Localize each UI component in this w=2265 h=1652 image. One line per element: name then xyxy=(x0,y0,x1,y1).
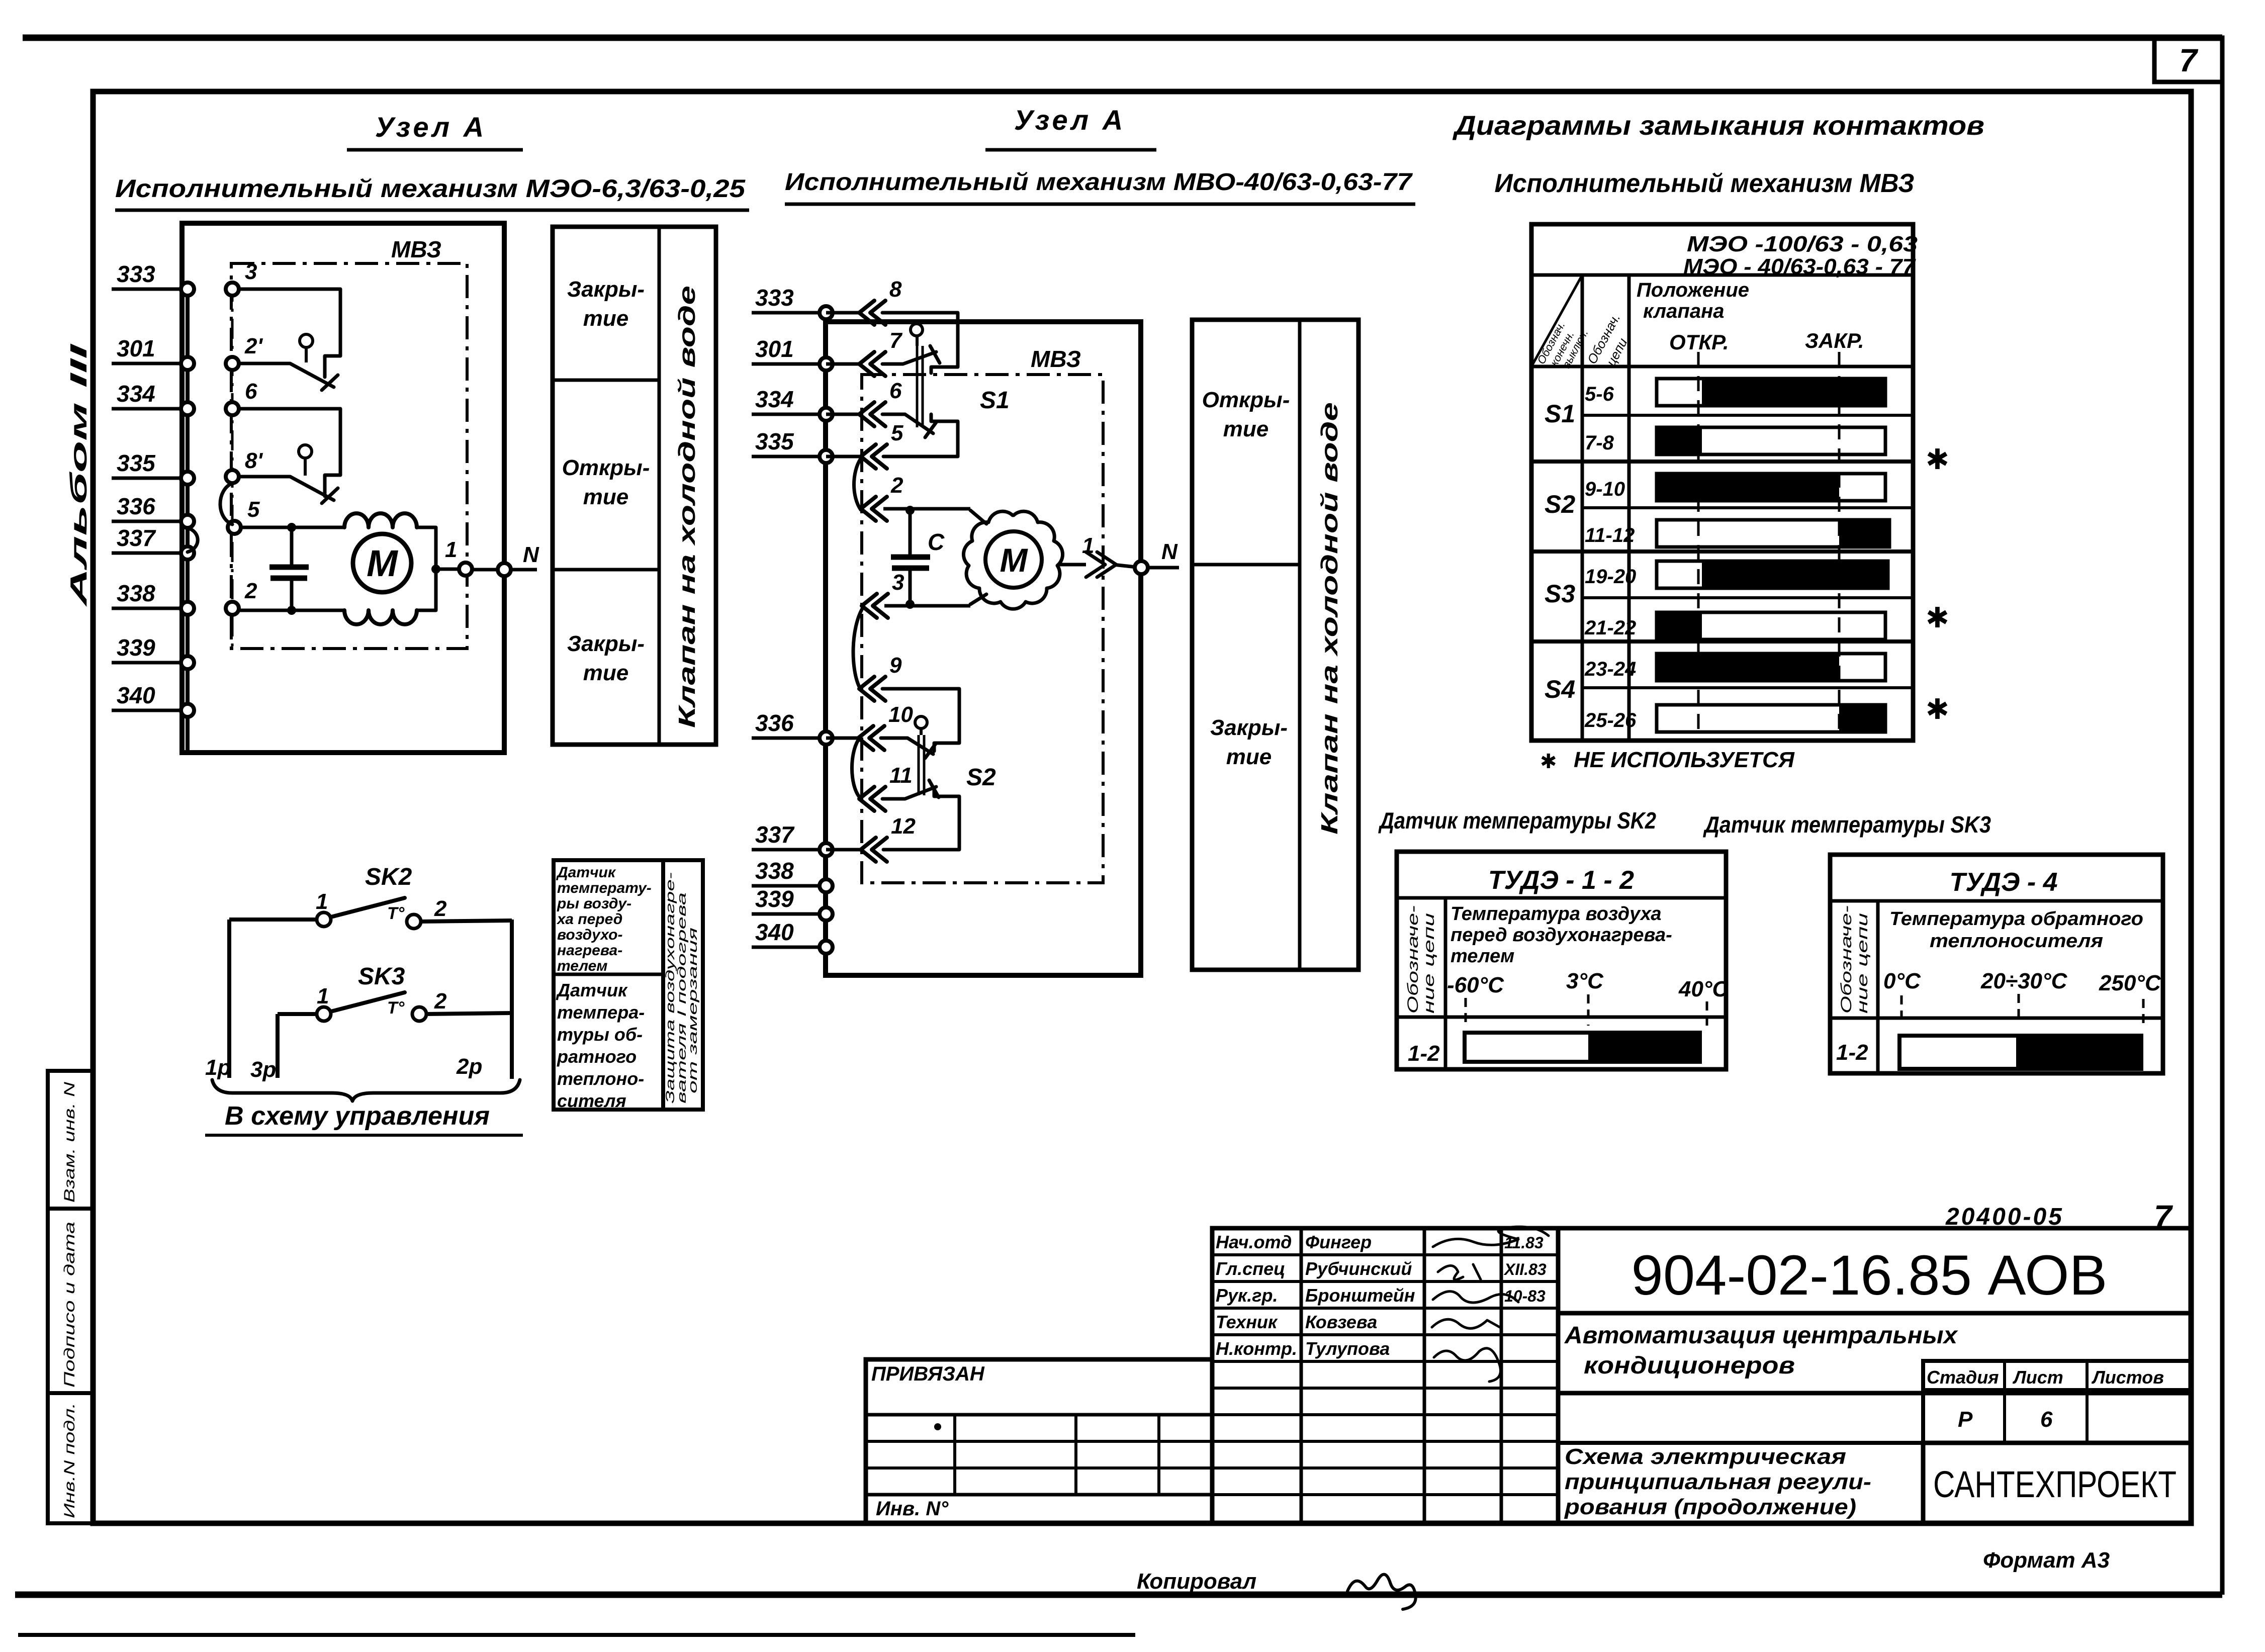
svg-text:МВЗ: МВЗ xyxy=(1031,346,1081,372)
pin 5 node (left) xyxy=(228,497,260,534)
svg-text:9: 9 xyxy=(889,653,902,678)
motor winding top (left) xyxy=(344,513,417,527)
svg-text:ние цепи: ние цепи xyxy=(1421,913,1437,1014)
svg-text:Датчик температуры SK2: Датчик температуры SK2 xyxy=(1378,807,1657,834)
svg-text:сителя: сителя xyxy=(557,1090,626,1111)
svg-text:5-6: 5-6 xyxy=(1585,383,1614,405)
svg-text:336: 336 xyxy=(117,493,155,519)
svg-text:20÷30°С: 20÷30°С xyxy=(1980,969,2068,993)
svg-text:8': 8' xyxy=(245,448,263,473)
wire row 5 to motor (left) xyxy=(241,526,344,529)
svg-text:Взам. инв. N: Взам. инв. N xyxy=(61,1082,78,1203)
wire pin5 row (middle) xyxy=(826,455,861,458)
svg-text:перед воздухонагрева-: перед воздухонагрева- xyxy=(1451,925,1672,946)
svg-text:3р: 3р xyxy=(250,1057,276,1082)
svg-text:Датчик температуры SK3: Датчик температуры SK3 xyxy=(1702,811,1991,838)
svg-text:ЗАКР.: ЗАКР. xyxy=(1805,329,1864,352)
svg-text:✱: ✱ xyxy=(1926,443,1949,475)
svg-text:Автоматизация центральных: Автоматизация центральных xyxy=(1564,1322,1958,1349)
contact closure bar 5-6 xyxy=(1585,379,1885,406)
title Uzel A (left) xyxy=(347,111,523,150)
valve state table (left) xyxy=(553,227,716,745)
svg-text:М: М xyxy=(367,542,398,584)
caption to control scheme xyxy=(205,1102,523,1135)
svg-text:тие: тие xyxy=(583,485,628,509)
actuator enclosure box (left) xyxy=(182,223,504,753)
svg-text:250°С: 250°С xyxy=(2099,971,2161,995)
title Uzel A (middle) xyxy=(985,104,1156,150)
svg-text:334: 334 xyxy=(755,386,794,412)
drawing description box xyxy=(1558,1443,1923,1523)
outer right border line xyxy=(2220,38,2225,1595)
svg-text:Т°: Т° xyxy=(387,998,405,1018)
limit switch contact 3-2p (left) xyxy=(239,289,340,390)
thermal switch SK3 xyxy=(278,963,512,1021)
svg-text:2: 2 xyxy=(434,989,447,1014)
title block signatures xyxy=(1216,1227,1549,1382)
switch S1 bracket pin5 (middle) xyxy=(883,414,958,456)
svg-text:19-20: 19-20 xyxy=(1585,566,1636,588)
svg-text:333: 333 xyxy=(755,285,794,311)
svg-text:тие: тие xyxy=(1226,745,1272,769)
title block frame xyxy=(1212,1228,1558,1523)
svg-text:Подписо и дата: Подписо и дата xyxy=(61,1222,78,1388)
svg-text:Клапан на холодной воде: Клапан на холодной воде xyxy=(674,286,700,728)
svg-text:Рубчинский: Рубчинский xyxy=(1305,1258,1412,1279)
svg-text:Лист: Лист xyxy=(2012,1367,2063,1388)
header diagonal cell legend xyxy=(1531,275,1630,370)
dashed guide line ZAKR xyxy=(1838,352,1841,738)
svg-text:тие: тие xyxy=(1223,417,1269,441)
loop contact 10 to 11 (middle) xyxy=(852,740,859,797)
svg-text:340: 340 xyxy=(117,682,155,708)
switch S2 bracket pin9 (middle) xyxy=(882,689,959,751)
svg-text:Альбом III: Альбом III xyxy=(65,343,92,607)
svg-text:Листов: Листов xyxy=(2091,1367,2164,1388)
switch S1 blade pin7 (middle) xyxy=(882,324,940,427)
wire pin8 row (middle) xyxy=(826,311,859,315)
svg-text:S3: S3 xyxy=(1545,580,1575,608)
svg-text:Схема электрическая: Схема электрическая xyxy=(1565,1444,1846,1469)
contact closure bar 9-10 xyxy=(1585,474,1885,501)
svg-text:S1: S1 xyxy=(1545,400,1575,428)
contact pin 10 (middle) xyxy=(858,702,913,750)
svg-text:Инв. N°: Инв. N° xyxy=(876,1498,949,1520)
sheet lower edge line xyxy=(18,1633,1135,1637)
switch S2 bracket pin12 (middle) xyxy=(883,788,959,850)
loop contact 3 to 9 (middle) xyxy=(853,608,863,687)
svg-text:Инв.N подл.: Инв.N подл. xyxy=(61,1403,78,1518)
svg-text:Ковзева: Ковзева xyxy=(1305,1312,1377,1332)
contact pin 7 (middle) xyxy=(859,328,903,376)
wire pin7 row (middle) xyxy=(826,362,859,366)
terminal 338 (left) xyxy=(112,579,257,615)
svg-text:7-8: 7-8 xyxy=(1585,432,1614,454)
svg-text:Гл.спец: Гл.спец xyxy=(1216,1258,1285,1279)
svg-text:принципиальная регули-: принципиальная регули- xyxy=(1565,1470,1871,1494)
svg-text:Формат А3: Формат А3 xyxy=(1983,1548,2110,1573)
dash-dot boundary MV3 (left) xyxy=(231,263,467,649)
svg-text:1: 1 xyxy=(317,984,329,1008)
svg-text:ние цепи: ние цепи xyxy=(1854,913,1871,1014)
svg-text:SK3: SK3 xyxy=(358,963,405,990)
svg-text:0°С: 0°С xyxy=(1883,969,1921,993)
svg-text:7: 7 xyxy=(2179,42,2199,78)
terminal 301 (middle) xyxy=(752,336,833,371)
terminal 333 (left) xyxy=(112,259,257,296)
node N (left) xyxy=(472,542,539,576)
svg-text:25-26: 25-26 xyxy=(1584,709,1637,731)
svg-text:температу-: температу- xyxy=(557,880,652,896)
terminal 333 (middle) xyxy=(752,285,833,319)
svg-text:301: 301 xyxy=(755,336,794,362)
wire left leg 3p xyxy=(276,1014,280,1078)
svg-text:Закры-: Закры- xyxy=(567,277,645,302)
left frame strip (Inv.N podl / Podpis i data / Vzam inv.N) xyxy=(48,1071,93,1523)
svg-text:✱: ✱ xyxy=(1926,693,1949,725)
wire row 2 to motor (left) xyxy=(239,609,344,612)
svg-text:ПРИВЯЗАН: ПРИВЯЗАН xyxy=(871,1363,985,1385)
svg-text:10: 10 xyxy=(888,702,913,727)
svg-text:339: 339 xyxy=(117,634,155,661)
doc code box 904-02-16.85 AOB xyxy=(1558,1228,2191,1313)
svg-text:1р: 1р xyxy=(205,1055,231,1080)
svg-text:рования (продолжение): рования (продолжение) xyxy=(1564,1495,1856,1519)
svg-text:904-02-16.85 АОВ: 904-02-16.85 АОВ xyxy=(1632,1244,2108,1307)
switch S2 blade pin10 (middle) xyxy=(881,716,936,795)
svg-text:11-12: 11-12 xyxy=(1585,524,1635,546)
svg-text:12: 12 xyxy=(891,814,916,839)
terminal 338 (middle) xyxy=(752,858,833,892)
svg-text:Т°: Т° xyxy=(387,904,405,923)
terminal 339 (middle) xyxy=(752,886,833,921)
svg-text:334: 334 xyxy=(117,381,155,407)
motor output chevrons node 1 (middle) xyxy=(1058,533,1141,577)
svg-text:ратного: ратного xyxy=(557,1046,637,1067)
svg-text:301: 301 xyxy=(117,335,155,361)
svg-text:Узел А: Узел А xyxy=(375,111,487,143)
svg-text:тие: тие xyxy=(583,661,628,685)
freeze protection rotated note xyxy=(663,860,703,1110)
svg-text:3: 3 xyxy=(245,259,257,284)
valve state table (middle) xyxy=(1192,320,1358,970)
svg-text:Рук.гр.: Рук.гр. xyxy=(1216,1285,1278,1306)
svg-text:N: N xyxy=(523,542,539,567)
svg-text:С: С xyxy=(928,529,945,555)
svg-text:8: 8 xyxy=(889,277,902,302)
svg-text:темпера-: темпера- xyxy=(557,1002,645,1023)
vertical bus wire (left) xyxy=(186,289,190,753)
svg-text:-60°С: -60°С xyxy=(1447,973,1504,997)
svg-text:SK2: SK2 xyxy=(365,864,412,890)
svg-text:Н.контр.: Н.контр. xyxy=(1216,1338,1297,1359)
terminal 334 (middle) xyxy=(752,386,833,421)
contact closure bar 25-26 xyxy=(1584,705,1885,732)
svg-text:МЭО -100/63 - 0,63: МЭО -100/63 - 0,63 xyxy=(1687,232,1918,256)
jumper 336-337 (left) xyxy=(188,528,198,552)
switch S1 bracket pin8 (middle) xyxy=(882,313,958,373)
contact pin 6 (middle) xyxy=(859,379,902,426)
svg-text:кондиционеров: кондиционеров xyxy=(1584,1352,1795,1379)
svg-text:теплоносителя: теплоносителя xyxy=(1930,931,2103,952)
svg-text:1: 1 xyxy=(445,537,457,562)
svg-text:S2: S2 xyxy=(1545,490,1575,518)
wire bottom to output (left) xyxy=(417,569,436,610)
wire row 2 (middle) xyxy=(883,507,970,511)
svg-text:НЕ ИСПОЛЬЗУЕТСЯ: НЕ ИСПОЛЬЗУЕТСЯ xyxy=(1574,748,1795,772)
svg-text:МЭО - 40/63-0,63 - 77: МЭО - 40/63-0,63 - 77 xyxy=(1683,254,1917,279)
svg-text:6: 6 xyxy=(245,379,257,404)
svg-text:Техник: Техник xyxy=(1216,1312,1278,1332)
border frame: outer top line xyxy=(23,35,2222,41)
svg-text:1-2: 1-2 xyxy=(1408,1041,1440,1066)
contact pin 3 (middle) xyxy=(862,570,904,618)
svg-text:335: 335 xyxy=(117,450,156,476)
wire right leg 2p xyxy=(510,920,514,1079)
svg-text:2: 2 xyxy=(244,579,257,603)
terminal 340 (left) xyxy=(112,682,194,717)
project name box xyxy=(1558,1313,2191,1393)
motor M (left) xyxy=(353,534,411,592)
svg-text:5: 5 xyxy=(247,497,260,522)
svg-text:335: 335 xyxy=(755,428,794,454)
footnote not used xyxy=(1540,748,1795,773)
svg-text:телем: телем xyxy=(557,958,607,974)
dashed guide line OTKR xyxy=(1697,352,1700,738)
svg-text:2: 2 xyxy=(434,896,447,921)
privyazan box xyxy=(866,1359,1212,1523)
terminal 336 (middle) xyxy=(752,710,833,745)
svg-text:3°С: 3°С xyxy=(1566,969,1604,993)
svg-text:333: 333 xyxy=(117,261,155,287)
svg-text:тие: тие xyxy=(583,306,628,331)
svg-text:337: 337 xyxy=(117,525,156,551)
switch S2 blade pin11 (middle) xyxy=(882,787,936,799)
header valve position xyxy=(1637,279,1864,354)
subtitle actuator MVO-40/63-0,63-77 xyxy=(785,169,1415,204)
contact closure bar 7-8 xyxy=(1585,427,1949,475)
wire row3 to motor cloud (middle) xyxy=(970,594,986,604)
svg-text:Датчик: Датчик xyxy=(556,980,628,1000)
svg-text:Температура воздуха: Температура воздуха xyxy=(1451,903,1662,925)
terminal 340 (middle) xyxy=(752,919,833,954)
svg-text:Узел А: Узел А xyxy=(1014,104,1126,136)
vertical bus wire (middle) xyxy=(824,313,828,975)
svg-text:Обозначе-: Обозначе- xyxy=(1838,905,1855,1014)
loop contact 5 to 2 (middle) xyxy=(854,458,861,510)
svg-text:Клапан на холодной воде: Клапан на холодной воде xyxy=(1316,402,1342,835)
svg-text:7: 7 xyxy=(889,328,903,353)
svg-text:2: 2 xyxy=(890,473,903,498)
brace to control circuit xyxy=(212,1080,520,1101)
capacitor C (middle) xyxy=(891,506,945,609)
wire row2 to motor cloud (middle) xyxy=(970,510,986,524)
svg-text:Закры-: Закры- xyxy=(1210,715,1288,740)
motor winding bottom (left) xyxy=(344,610,417,624)
svg-text:воздухо-: воздухо- xyxy=(557,927,622,943)
contact closure bar 23-24 xyxy=(1584,654,1949,725)
wire pin10 row (middle) xyxy=(826,737,858,740)
contact diagram table frame xyxy=(1531,224,1913,741)
svg-text:3: 3 xyxy=(892,570,904,595)
outer bottom border line xyxy=(15,1592,2222,1598)
svg-text:Р: Р xyxy=(1958,1407,1973,1432)
wire pin12 row (middle) xyxy=(826,848,861,852)
svg-text:Бронштейн: Бронштейн xyxy=(1305,1285,1415,1306)
contact pin 5 (middle) xyxy=(861,421,903,469)
svg-text:телем: телем xyxy=(1451,946,1514,967)
svg-text:САНТЕХПРОЕКТ: САНТЕХПРОЕКТ xyxy=(1933,1463,2177,1505)
svg-text:Положение: Положение xyxy=(1637,279,1749,301)
svg-text:23-24: 23-24 xyxy=(1584,658,1636,680)
svg-text:337: 337 xyxy=(755,821,795,848)
wire left leg 1p xyxy=(227,920,231,1078)
table header MEO types xyxy=(1683,232,1918,279)
contact pin 2 (middle) xyxy=(861,473,903,521)
svg-text:5: 5 xyxy=(891,421,903,445)
wire row 3 (middle) xyxy=(884,604,970,608)
terminal 335 (middle) xyxy=(752,428,833,463)
svg-text:40°С: 40°С xyxy=(1678,977,1729,1001)
svg-text:туры об-: туры об- xyxy=(557,1024,643,1045)
dash-dot contact column line (left) xyxy=(231,282,234,649)
contact pin 9 (middle) xyxy=(859,653,902,701)
terminal 335 (left) xyxy=(112,448,263,485)
switch S1 blade pin6 (middle) xyxy=(882,414,933,433)
svg-text:Закры-: Закры- xyxy=(567,631,645,656)
sheet number box (7) xyxy=(2154,38,2222,82)
contact closure bar 11-12 xyxy=(1585,520,1889,547)
svg-text:9-10: 9-10 xyxy=(1585,478,1625,500)
actuator enclosure box (middle) xyxy=(826,322,1141,975)
node N (middle) xyxy=(1135,539,1179,574)
svg-text:2р: 2р xyxy=(456,1054,482,1079)
stage sheet table xyxy=(1923,1361,2191,1443)
svg-text:от замерзания: от замерзания xyxy=(686,928,700,1093)
subtitle actuator MEO-6,3/63-0,25 xyxy=(115,174,749,210)
svg-text:Диаграммы замыкания контактов: Диаграммы замыкания контактов xyxy=(1453,111,1984,141)
svg-text:Копировал: Копировал xyxy=(1137,1569,1256,1594)
svg-text:Откры-: Откры- xyxy=(562,455,650,480)
svg-text:нагрева-: нагрева- xyxy=(557,942,622,959)
org name SANTEHPROEKT xyxy=(1923,1443,2191,1523)
svg-text:ОТКР.: ОТКР. xyxy=(1669,330,1729,354)
contact pin 11 (middle) xyxy=(859,763,913,811)
svg-text:Стадия: Стадия xyxy=(1927,1367,1999,1388)
node 1 (left) xyxy=(431,537,472,576)
svg-text:✱: ✱ xyxy=(1926,602,1949,633)
motor M cloud (middle) xyxy=(963,511,1062,609)
svg-text:338: 338 xyxy=(117,580,155,606)
svg-text:340: 340 xyxy=(755,919,794,945)
svg-text:Исполнительный механизм МВО-40: Исполнительный механизм МВО-40/63-0,63-7… xyxy=(785,169,1413,196)
svg-text:S4: S4 xyxy=(1545,675,1575,703)
svg-text:1: 1 xyxy=(316,889,328,914)
contact closure bar 19-20 xyxy=(1585,561,1949,633)
svg-text:336: 336 xyxy=(755,710,794,736)
capacitor C (left) xyxy=(269,523,309,615)
svg-text:338: 338 xyxy=(755,858,794,884)
terminal 337 (middle) xyxy=(752,821,833,856)
svg-text:XII.83: XII.83 xyxy=(1503,1260,1547,1278)
svg-text:Исполнительный механизм МВЗ: Исполнительный механизм МВЗ xyxy=(1495,169,1915,198)
svg-text:теплоно-: теплоно- xyxy=(557,1068,644,1089)
sensor description box xyxy=(554,860,663,1111)
terminal 337 (left) xyxy=(112,525,194,560)
svg-text:S2: S2 xyxy=(966,764,996,791)
wire pin6 row (middle) xyxy=(826,413,859,416)
svg-text:В схему управления: В схему управления xyxy=(225,1102,490,1131)
svg-text:Исполнительный механизм МЭО-6,: Исполнительный механизм МЭО-6,3/63-0,25 xyxy=(115,174,746,203)
contact closure bar 21-22 xyxy=(1584,612,1885,639)
svg-text:М: М xyxy=(1000,541,1029,579)
svg-text:Откры-: Откры- xyxy=(1202,388,1290,412)
svg-text:ТУДЭ - 1 - 2: ТУДЭ - 1 - 2 xyxy=(1488,866,1634,895)
wire to output (left) xyxy=(417,527,436,569)
svg-text:21-22: 21-22 xyxy=(1584,617,1636,639)
svg-text:Температура обратного: Температура обратного xyxy=(1889,908,2143,930)
svg-text:Датчик: Датчик xyxy=(556,864,616,881)
svg-text:339: 339 xyxy=(755,886,794,912)
svg-text:клапана: клапана xyxy=(1643,300,1724,322)
svg-text:Нач.отд: Нач.отд xyxy=(1216,1232,1292,1252)
svg-text:6: 6 xyxy=(2040,1407,2053,1432)
svg-text:✱: ✱ xyxy=(1540,751,1557,773)
svg-text:2': 2' xyxy=(244,334,263,358)
kopiroval note xyxy=(1137,1569,1416,1609)
contact pin 12 (middle) xyxy=(861,814,916,862)
sensor table TUDE-4 xyxy=(1830,855,2163,1073)
svg-text:S1: S1 xyxy=(980,387,1010,414)
svg-text:Тулупова: Тулупова xyxy=(1305,1338,1390,1359)
svg-text:Обозначе-: Обозначе- xyxy=(1405,905,1421,1014)
svg-text:ры возду-: ры возду- xyxy=(557,895,631,912)
svg-text:N: N xyxy=(1161,539,1178,564)
terminal 339 (left) xyxy=(112,634,194,669)
sensor table TUDE-1-2 xyxy=(1397,852,1729,1069)
svg-text:Фингер: Фингер xyxy=(1305,1232,1372,1252)
svg-text:ТУДЭ - 4: ТУДЭ - 4 xyxy=(1949,868,2057,897)
svg-text:МВЗ: МВЗ xyxy=(391,236,441,262)
thermal switch SK2 xyxy=(229,864,512,929)
terminal 334 (left) xyxy=(112,379,257,415)
terminal 301 (left) xyxy=(112,334,263,370)
svg-text:11: 11 xyxy=(889,763,913,788)
jumper 8p-5 (left) xyxy=(220,483,232,524)
svg-text:6: 6 xyxy=(889,379,902,403)
terminal 336 (left) xyxy=(112,493,194,528)
dash-dot boundary MV3 (middle) xyxy=(862,375,1103,883)
limit switch contact 6-8p (left) xyxy=(239,409,340,503)
svg-text:1-2: 1-2 xyxy=(1836,1040,1868,1065)
contact pin 8 (middle) xyxy=(859,277,902,325)
svg-text:ха перед: ха перед xyxy=(556,911,622,928)
